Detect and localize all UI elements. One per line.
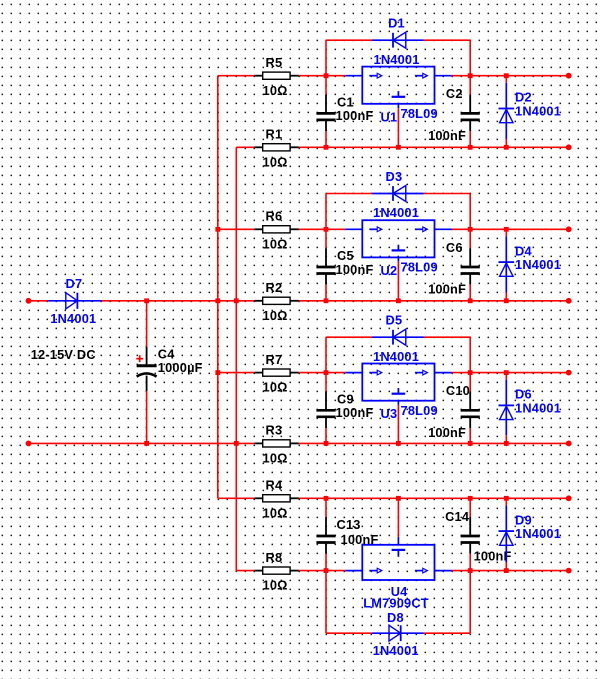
wire R1 row right of resistor xyxy=(299,146,345,148)
U4 input pin arrow xyxy=(369,568,382,573)
wire R3 row continued xyxy=(345,442,569,444)
wire R1 row continued xyxy=(345,146,569,148)
terminal gnd3 xyxy=(566,441,572,447)
node U4 gnd xyxy=(396,496,401,501)
svg-text:78L09: 78L09 xyxy=(401,259,438,274)
value label D7 1N4001 xyxy=(50,311,96,326)
terminal input left xyxy=(26,298,32,304)
value label C13 100nF xyxy=(341,532,379,547)
capacitor C5 xyxy=(316,248,353,284)
wire D loop section 2 top left xyxy=(326,193,372,195)
C4 plus polarity mark xyxy=(136,355,143,362)
wire C9 bottom lead xyxy=(325,428,327,444)
wire C2 top lead xyxy=(469,76,471,95)
value label D9 1N4001 xyxy=(515,526,561,541)
node C9 top xyxy=(324,370,329,375)
wire D loop section 1 top right xyxy=(424,39,470,41)
svg-text:100nF: 100nF xyxy=(428,128,466,143)
svg-text:C13: C13 xyxy=(337,517,361,532)
U2 output pin arrow xyxy=(415,227,428,232)
resistor R4 xyxy=(254,478,298,502)
value label D3 1N4001 xyxy=(373,205,419,220)
value label R8 10Ω xyxy=(263,578,288,593)
svg-text:C10: C10 xyxy=(446,383,470,398)
value label D4 1N4001 xyxy=(515,257,561,272)
svg-text:10Ω: 10Ω xyxy=(263,83,288,98)
wire D9 bottom lead xyxy=(505,562,507,570)
svg-text:R6: R6 xyxy=(266,209,283,224)
wire regulator ground drop xyxy=(397,262,399,301)
U2 output lead xyxy=(435,228,452,230)
svg-text:1000µF: 1000µF xyxy=(158,360,203,375)
value label D6 1N4001 xyxy=(515,400,561,415)
wire R1 row left xyxy=(236,146,254,148)
node C6 bottom xyxy=(468,298,473,303)
diode D9 xyxy=(499,505,532,562)
op-amp-style regulator box U1 xyxy=(362,67,434,104)
wire C2 bottom lead xyxy=(469,131,471,147)
node C1/loop top xyxy=(324,73,329,78)
label U2 xyxy=(381,263,398,278)
node C14 bottom xyxy=(468,568,473,573)
node D9 bottom xyxy=(504,568,509,573)
wire R3 row right of resistor xyxy=(299,442,345,444)
diode D8 xyxy=(372,610,424,641)
resistor R1 xyxy=(254,127,298,151)
U1 output pin arrow xyxy=(415,73,428,78)
node bus2 input xyxy=(234,298,239,303)
node C2 top xyxy=(468,73,473,78)
value label D2 1N4001 xyxy=(515,103,561,118)
U1 input pin arrow xyxy=(369,73,382,78)
node U3 gnd xyxy=(396,441,401,446)
wire regulator ground drop xyxy=(397,108,399,147)
wire C6 top lead xyxy=(469,229,471,248)
node C10 top xyxy=(468,370,473,375)
U1 output lead xyxy=(435,75,452,77)
wire D loop section 1 left vertical xyxy=(325,40,327,75)
capacitor C14 xyxy=(445,509,480,554)
wire C10 bottom lead xyxy=(469,428,471,444)
node C6 top xyxy=(468,227,473,232)
diode D1 xyxy=(372,15,424,48)
node bus1 input xyxy=(215,298,220,303)
value label D1 1N4001 xyxy=(374,52,420,67)
U1 input lead xyxy=(345,75,362,77)
wire R4 row left xyxy=(218,497,255,499)
value label R7 10Ω xyxy=(263,380,288,395)
wire input row from left terminal to D7 xyxy=(29,300,49,302)
svg-text:1N4001: 1N4001 xyxy=(515,103,561,118)
value label R1 10Ω xyxy=(263,154,288,169)
svg-text:10Ω: 10Ω xyxy=(263,236,288,251)
wire C1 top lead xyxy=(325,76,327,95)
svg-text:100nF: 100nF xyxy=(336,262,374,277)
diode D5 xyxy=(372,312,424,345)
svg-text:U2: U2 xyxy=(381,263,398,278)
wire D8 loop bottom left xyxy=(326,632,372,634)
U4 output lead xyxy=(435,570,452,572)
svg-text:D7: D7 xyxy=(66,276,83,291)
svg-text:D5: D5 xyxy=(386,312,403,327)
terminal out4 xyxy=(566,568,572,574)
svg-text:R3: R3 xyxy=(266,423,283,438)
wire D loop section 3 top right xyxy=(424,336,470,338)
wire R5 row output xyxy=(452,75,569,77)
wire C1 bottom lead xyxy=(325,131,327,147)
value label R6 10Ω xyxy=(263,236,288,251)
node C9 bottom xyxy=(324,441,329,446)
U4 output pin arrow xyxy=(415,568,428,573)
svg-text:1N4001: 1N4001 xyxy=(50,311,96,326)
terminal out3 xyxy=(566,370,572,376)
wire D7 anode lead xyxy=(47,300,49,302)
terminal gnd1 xyxy=(566,144,572,150)
svg-text:1N4001: 1N4001 xyxy=(373,643,419,658)
node C10 bottom xyxy=(468,441,473,446)
node C2 bottom xyxy=(468,145,473,150)
svg-text:C6: C6 xyxy=(446,240,463,255)
node D2 bottom xyxy=(504,145,509,150)
op-amp-style regulator box U2 xyxy=(362,220,434,257)
wire R7 row output xyxy=(452,372,569,374)
svg-text:100nF: 100nF xyxy=(336,405,374,420)
wire C14 top lead xyxy=(469,498,471,517)
svg-text:10Ω: 10Ω xyxy=(263,380,288,395)
node U1 gnd xyxy=(396,145,401,150)
wire R7 row right of resistor xyxy=(299,372,345,374)
svg-text:U1: U1 xyxy=(381,109,398,124)
capacitor C4 polarized xyxy=(137,347,176,391)
svg-text:10Ω: 10Ω xyxy=(263,308,288,323)
svg-text:R8: R8 xyxy=(266,550,283,565)
node U2 gnd xyxy=(396,298,401,303)
wire C5 bottom lead xyxy=(325,285,327,301)
capacitor C10 xyxy=(446,383,480,428)
resistor R8 xyxy=(254,550,298,574)
svg-text:C14: C14 xyxy=(445,509,470,524)
svg-text:D1: D1 xyxy=(388,15,405,30)
wire D8 loop right vertical xyxy=(469,571,471,634)
value label C14 100nF xyxy=(474,549,512,564)
wire C14 bottom lead xyxy=(469,554,471,571)
svg-text:C2: C2 xyxy=(446,86,463,101)
wire C9 top lead xyxy=(325,373,327,392)
wire D loop section 1 right vertical xyxy=(469,40,471,75)
U3 input pin arrow xyxy=(369,370,382,375)
value label 78L09 xyxy=(401,259,438,274)
svg-text:100nF: 100nF xyxy=(428,282,466,297)
U3 output pin arrow xyxy=(415,370,428,375)
capacitor C6 xyxy=(446,240,480,285)
svg-text:D8: D8 xyxy=(387,610,404,625)
terminal gnd4 xyxy=(566,495,572,501)
node C5 top xyxy=(324,227,329,232)
node D9 top xyxy=(504,496,509,501)
capacitor C1 xyxy=(316,95,353,131)
label U1 xyxy=(381,109,398,124)
diode D2 xyxy=(499,83,532,139)
diode D3 xyxy=(372,169,424,202)
wire C13 bottom lead xyxy=(325,554,327,571)
capacitor C9 xyxy=(316,391,353,427)
U2 ground pin symbol xyxy=(392,245,406,251)
value label R4 10Ω xyxy=(263,505,288,520)
terminal gnd2 xyxy=(566,298,572,304)
terminal common left xyxy=(26,441,32,447)
wire C6 bottom lead xyxy=(469,285,471,301)
label U3 xyxy=(381,406,398,421)
wire R6 row right of resistor xyxy=(299,228,345,230)
wire R6 row output xyxy=(452,228,569,230)
node C1 bottom xyxy=(324,145,329,150)
wire D8 loop bottom right xyxy=(424,632,470,634)
wire D loop section 1 top left xyxy=(326,39,372,41)
wire D9 top lead xyxy=(505,498,507,505)
diode D6 xyxy=(499,380,532,436)
wire D6 bottom lead xyxy=(505,435,507,443)
wire D4 bottom lead xyxy=(505,293,507,301)
resistor R3 xyxy=(254,423,298,447)
value label C4 1000µF xyxy=(158,360,203,375)
svg-text:R5: R5 xyxy=(266,55,283,70)
node D6 top xyxy=(504,370,509,375)
wire D4 top lead xyxy=(505,229,507,236)
capacitor C2 xyxy=(446,86,480,131)
node bus2 bottom row xyxy=(234,441,239,446)
svg-text:10Ω: 10Ω xyxy=(263,450,288,465)
node D4 bottom xyxy=(504,298,509,303)
resistor R6 xyxy=(254,209,298,233)
wire D2 bottom lead xyxy=(505,139,507,147)
wire U4 output to right terminal xyxy=(452,570,569,572)
wire D loop section 3 left vertical xyxy=(325,337,327,372)
svg-text:12-15V DC: 12-15V DC xyxy=(31,347,96,362)
svg-text:1N4001: 1N4001 xyxy=(515,400,561,415)
value label D5 1N4001 xyxy=(373,349,419,364)
value label C10 100nF xyxy=(428,425,466,440)
resistor R2 xyxy=(254,280,298,304)
wire D loop section 3 top left xyxy=(326,336,372,338)
wire U4 ground drop xyxy=(397,498,399,537)
U3 input lead xyxy=(345,372,362,374)
value label C9 100nF xyxy=(336,405,374,420)
value label 78L09 xyxy=(401,106,438,121)
wire R2 row right of resistor xyxy=(299,300,345,302)
node D4 top xyxy=(504,227,509,232)
capacitor C13 xyxy=(316,517,360,553)
U1 ground pin symbol xyxy=(392,91,406,97)
wire C4 top lead xyxy=(146,301,148,347)
wire R8 row left xyxy=(236,570,254,572)
svg-text:1N4001: 1N4001 xyxy=(515,257,561,272)
value label 78L09 xyxy=(401,403,438,418)
U1 ground lead xyxy=(397,104,399,108)
wire regulator ground drop xyxy=(397,405,399,443)
svg-text:10Ω: 10Ω xyxy=(263,578,288,593)
wire bus 2 vertical xyxy=(235,147,237,570)
wire R4 row right of resistor xyxy=(299,497,345,499)
wire C5 top lead xyxy=(325,229,327,248)
value label LM7909CT xyxy=(363,596,429,611)
node C4 bottom xyxy=(144,441,149,446)
value label R5 10Ω xyxy=(263,83,288,98)
svg-text:R7: R7 xyxy=(266,352,283,367)
node bus1 R6 xyxy=(215,227,220,232)
value label D8 1N4001 xyxy=(373,643,419,658)
svg-text:10Ω: 10Ω xyxy=(263,505,288,520)
U4 ground pin symbol xyxy=(392,550,406,557)
value label R2 10Ω xyxy=(263,308,288,323)
wire C10 top lead xyxy=(469,373,471,392)
node C4 top xyxy=(144,298,149,303)
diode D4 xyxy=(499,236,533,292)
svg-text:1N4001: 1N4001 xyxy=(373,205,419,220)
svg-text:10Ω: 10Ω xyxy=(263,154,288,169)
node bus1 R7 xyxy=(215,370,220,375)
svg-text:R4: R4 xyxy=(266,478,283,493)
wire R2 row continued xyxy=(345,300,569,302)
label U4 xyxy=(391,584,408,599)
svg-text:U3: U3 xyxy=(381,406,398,421)
wire D6 top lead xyxy=(505,373,507,380)
svg-text:1N4001: 1N4001 xyxy=(515,526,561,541)
value label C6 100nF xyxy=(428,282,466,297)
U2 ground lead xyxy=(397,257,399,261)
wire R4 row continued xyxy=(345,497,569,499)
svg-text:R1: R1 xyxy=(266,127,283,142)
op-amp-style regulator box U3 xyxy=(362,364,434,401)
svg-text:1N4001: 1N4001 xyxy=(374,52,420,67)
node C13 top xyxy=(324,496,329,501)
svg-text:78L09: 78L09 xyxy=(401,403,438,418)
wire D loop section 2 top right xyxy=(424,193,470,195)
regulator U4 box xyxy=(362,545,434,580)
U4 input lead xyxy=(345,570,362,572)
node D2 top xyxy=(504,73,509,78)
node C5 bottom xyxy=(324,298,329,303)
U2 input lead xyxy=(345,228,362,230)
diode D7 xyxy=(48,276,101,309)
terminal out2 xyxy=(566,226,572,232)
wire C4 bottom lead xyxy=(146,391,148,444)
wire input row D7 to R2 xyxy=(102,300,255,302)
wire bottom common row left xyxy=(29,442,255,444)
value label C2 100nF xyxy=(428,128,466,143)
wire R5 row right of resistor xyxy=(299,75,345,77)
wire D loop section 3 right vertical xyxy=(469,337,471,372)
node D6 bottom xyxy=(504,441,509,446)
node C14 top xyxy=(468,496,473,501)
U4 ground lead xyxy=(397,537,399,545)
wire D8 loop left vertical xyxy=(325,571,327,634)
wire C13 top lead xyxy=(325,498,327,517)
wire D loop section 2 left vertical xyxy=(325,194,327,230)
U3 ground pin symbol xyxy=(392,388,406,394)
terminal out1 xyxy=(566,73,572,79)
node C13 bottom xyxy=(324,568,329,573)
resistor R7 xyxy=(254,352,298,376)
svg-text:1N4001: 1N4001 xyxy=(373,349,419,364)
svg-text:100nF: 100nF xyxy=(336,108,374,123)
U3 output lead xyxy=(435,372,452,374)
wire bus 1 vertical xyxy=(217,76,219,499)
text label 12-15V DC xyxy=(31,347,96,362)
wire D2 top lead xyxy=(505,76,507,83)
resistor R5 xyxy=(254,55,298,79)
wire R6 row left xyxy=(218,228,255,230)
svg-text:LM7909CT: LM7909CT xyxy=(363,596,429,611)
svg-text:R2: R2 xyxy=(266,280,283,295)
wire R5 row left xyxy=(218,75,255,77)
svg-text:D3: D3 xyxy=(386,169,403,184)
svg-text:78L09: 78L09 xyxy=(401,106,438,121)
U2 input pin arrow xyxy=(369,227,382,232)
U3 ground lead xyxy=(397,401,399,405)
wire R7 row left xyxy=(218,372,255,374)
value label R3 10Ω xyxy=(263,450,288,465)
value label C1 100nF xyxy=(336,108,374,123)
svg-text:100nF: 100nF xyxy=(428,425,466,440)
wire D loop section 2 right vertical xyxy=(469,194,471,230)
value label C5 100nF xyxy=(336,262,374,277)
wire R8 row to U4 input xyxy=(299,570,345,572)
